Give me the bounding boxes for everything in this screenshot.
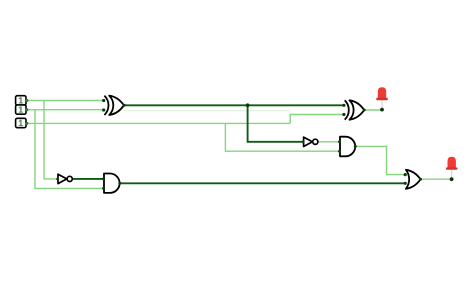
wire: pin2 to XOR1 input B (26, 109, 104, 111)
LED D1 (lit red) (376, 87, 388, 111)
XOR gate XOR2 (342, 100, 365, 119)
XOR gate XOR1 (102, 96, 126, 115)
AND gate AND1 (338, 137, 357, 157)
wire: branch from pin3 down to AND1 input B (225, 123, 340, 151)
NOT gate NOT1 (inverter) (302, 137, 318, 146)
wire: branch from pin2 down to AND2 input B (35, 110, 104, 189)
wire: NOT2 output to AND2 input A (dark) (72, 178, 104, 180)
input pin 2 (16, 105, 29, 114)
wire: XOR2 output to LED1 node (364, 109, 382, 111)
input pin 3 (16, 118, 29, 127)
wire: pin3 across to elbow (26, 122, 290, 124)
wire: AND1 output to OR1 input A (355, 146, 405, 174)
wire: XOR1 output to XOR2 input A (dark, value 0) (124, 104, 344, 106)
input pin 1 (16, 96, 29, 105)
wire: pin1 to XOR1 input A (26, 100, 104, 102)
OR gate OR1 (404, 170, 422, 189)
wire: OR1 output to LED2 node (420, 178, 451, 180)
NOT gate NOT2 (inverter) (56, 174, 72, 183)
wire: AND2 output to OR1 input B (dark) (120, 182, 406, 184)
junction dot on dark net (246, 103, 250, 107)
LED D2 (lit red) (446, 157, 458, 181)
AND gate AND2 (102, 174, 121, 193)
wire: elbow up to XOR2 input B (290, 115, 344, 124)
wire: faint overlapped wire segment (124, 110, 290, 112)
wire: branch from pin1 down to NOT2 input (44, 101, 58, 179)
wire: branch down from dark net to NOT1 input (248, 105, 304, 142)
wire: NOT1 output to AND1 input A (318, 141, 340, 143)
